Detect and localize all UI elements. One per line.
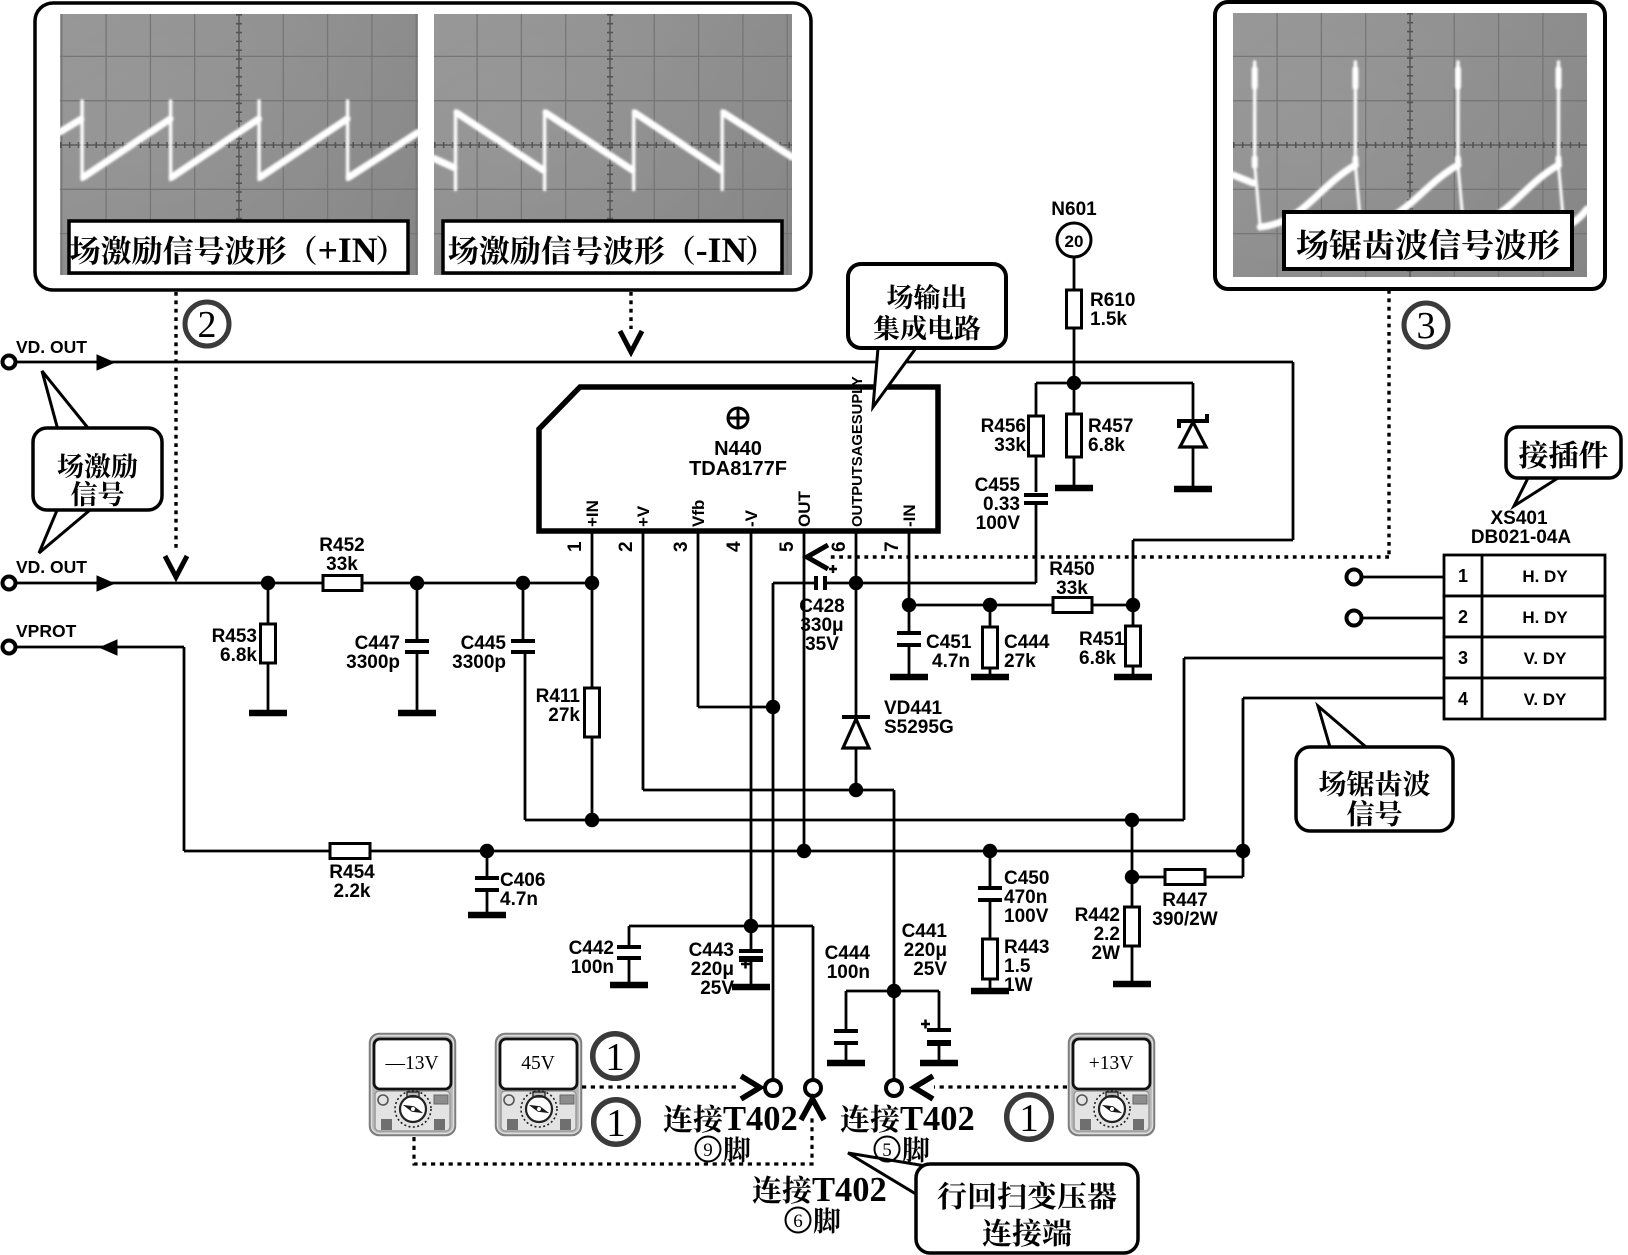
wire: R454 across to XS401 pin4 riser	[370, 850, 1243, 853]
wire: rail down to R442	[1131, 820, 1134, 907]
IC pin 1 (+IN) label	[583, 500, 602, 527]
arrowhead right at T402-9 terminal	[741, 1076, 760, 1099]
svg-text:470n: 470n	[1004, 887, 1047, 908]
svg-text:330μ: 330μ	[800, 615, 843, 636]
svg-text:R443: R443	[1004, 937, 1049, 958]
svg-text:3: 3	[671, 541, 692, 552]
terminal XS401 wire 2	[1347, 611, 1362, 626]
svg-text:VD. OUT: VD. OUT	[16, 557, 87, 577]
IC pin 6 (OUTPUTSAGESUPLY) label	[850, 376, 866, 527]
svg-text:R452: R452	[319, 535, 364, 556]
svg-text:33k: 33k	[326, 554, 358, 575]
wire: Vfb to feedback line	[698, 706, 773, 709]
svg-text:6.8k: 6.8k	[1079, 648, 1116, 669]
svg-text:T402: T402	[900, 1100, 975, 1138]
terminal VD.OUT (top)	[3, 356, 16, 369]
svg-text:OUT: OUT	[795, 491, 814, 528]
ground terminal under R457	[1055, 485, 1093, 492]
svg-text:25V: 25V	[700, 978, 734, 999]
svg-text:+IN: +IN	[318, 230, 378, 270]
wire: VD.OUT (top) to right side	[14, 361, 1293, 364]
resistor C444 (drawn as box, 27k)	[983, 627, 998, 668]
svg-text:V. DY: V. DY	[1524, 690, 1568, 709]
IC polarity mark	[728, 408, 748, 428]
capacitor C450	[978, 886, 1002, 890]
oscilloscope panel frame (top-right sawtooth photo)	[1215, 2, 1605, 289]
svg-text:H. DY: H. DY	[1522, 608, 1568, 627]
svg-text:100n: 100n	[827, 962, 870, 983]
wire: VD.OUT (lower) to R452	[14, 582, 323, 585]
svg-text:4: 4	[724, 541, 745, 552]
svg-text:R610: R610	[1090, 290, 1135, 311]
label 连接T402 ⑨脚	[664, 1105, 693, 1133]
svg-text:2W: 2W	[1092, 943, 1121, 964]
ground terminal under C451	[890, 674, 928, 681]
wire: node to R453	[267, 583, 270, 624]
capacitor C447	[405, 639, 429, 643]
svg-text:R411: R411	[536, 686, 581, 707]
capacitor C406	[475, 876, 499, 880]
svg-text:1: 1	[605, 1035, 625, 1078]
wire: down to -IN node	[1132, 540, 1135, 605]
wire: feedback rail to riser	[525, 819, 1184, 822]
svg-text:3300p: 3300p	[346, 652, 400, 673]
ground terminal under C442	[610, 982, 648, 989]
svg-text:1: 1	[565, 541, 586, 552]
svg-text:4.7n: 4.7n	[500, 889, 538, 910]
dotted leader from sawtooth photo down	[1387, 290, 1390, 557]
svg-text:33k: 33k	[1056, 578, 1088, 599]
oscilloscope panel frame (top-left waveform photos)	[35, 3, 811, 290]
svg-text:C406: C406	[500, 870, 545, 891]
svg-text:C447: C447	[355, 633, 400, 654]
svg-text:3: 3	[1458, 648, 1468, 668]
svg-text:C444: C444	[1004, 632, 1050, 653]
svg-text:33k: 33k	[994, 435, 1026, 456]
svg-text:100V: 100V	[976, 513, 1021, 534]
svg-text:6.8k: 6.8k	[1088, 435, 1125, 456]
resistor R454	[330, 844, 370, 859]
junction node R610	[1067, 376, 1081, 390]
wire: zener anode down	[1192, 447, 1195, 486]
svg-text:Vfb: Vfb	[689, 500, 708, 527]
circled marker 2	[185, 302, 229, 346]
junction node R442 rail	[1125, 813, 1139, 827]
wire: C444(27k) to ground	[989, 668, 992, 674]
svg-text:VD. OUT: VD. OUT	[16, 337, 87, 357]
wire: R447 riser up	[1242, 851, 1245, 877]
terminal VPROT	[3, 641, 16, 654]
junction node C450	[983, 844, 997, 858]
svg-text:C451: C451	[926, 632, 972, 653]
resistor R610	[1067, 290, 1082, 328]
capacitor C443 (electrolytic)	[739, 949, 763, 953]
svg-text:R450: R450	[1049, 559, 1094, 580]
IC pin 5 (OUT) label	[795, 491, 814, 528]
svg-text:T402: T402	[723, 1100, 798, 1138]
svg-text:R442: R442	[1075, 905, 1120, 926]
svg-text:4.7n: 4.7n	[932, 651, 970, 672]
wire: R453 to ground	[267, 663, 270, 710]
svg-text:R453: R453	[212, 626, 257, 647]
svg-text:5: 5	[882, 1140, 892, 1161]
diode VD441 S5295G	[842, 715, 870, 719]
svg-text:6: 6	[829, 541, 850, 552]
wire: down to C441	[938, 991, 941, 1030]
svg-text:27k: 27k	[548, 705, 580, 726]
callout 场激励信号	[42, 371, 88, 430]
svg-text:45V: 45V	[521, 1053, 555, 1074]
junction node C445	[516, 576, 530, 590]
ground terminal under R443	[971, 988, 1009, 995]
label box 场激励信号波形（+IN）	[69, 221, 408, 273]
svg-text:V. DY: V. DY	[1524, 649, 1568, 668]
resistor R443	[983, 939, 998, 979]
wire: +V rail	[643, 789, 894, 792]
svg-text:-IN: -IN	[696, 230, 748, 270]
ground terminal under R442	[1113, 981, 1151, 988]
svg-text:R457: R457	[1088, 416, 1133, 437]
wire: R457 down	[1073, 457, 1076, 485]
capacitor C455	[1024, 493, 1048, 497]
zener diode (unlabelled, right of R457)	[1179, 414, 1207, 428]
svg-text:DB021-04A: DB021-04A	[1471, 527, 1572, 548]
wire: pin7 -IN down to C451	[908, 531, 911, 633]
junction node C447	[410, 576, 424, 590]
circled marker 1 (a)	[593, 1034, 638, 1079]
wire: node to C444(27k)	[989, 605, 992, 627]
wire: horizontal toward R451 node	[1133, 539, 1293, 542]
svg-text:XS401: XS401	[1490, 508, 1547, 529]
svg-text:2: 2	[1458, 607, 1468, 627]
svg-text:390/2W: 390/2W	[1152, 909, 1218, 930]
wire: C445 bottom down	[524, 652, 527, 820]
wire: R451 to ground	[1132, 666, 1135, 674]
dotted probe line from -13V meter	[414, 1118, 812, 1164]
capacitor C428 (electrolytic, horizontal)	[814, 576, 818, 590]
dotted leader left to IC pin 6	[830, 555, 1389, 558]
svg-text:C455: C455	[975, 475, 1021, 496]
label box 场锯齿波信号波形	[1284, 212, 1572, 269]
svg-text:1.5: 1.5	[1004, 956, 1031, 977]
resistor R451	[1126, 626, 1141, 666]
svg-text:1: 1	[1019, 1096, 1039, 1139]
wire: R450 to R451 node	[1092, 604, 1133, 607]
wire: down to T402-6 terminal	[812, 926, 815, 1081]
svg-text:4: 4	[1458, 689, 1468, 709]
junction node C441 rail	[887, 984, 901, 998]
junction node C444-27k	[983, 598, 997, 612]
svg-text:T402: T402	[812, 1171, 887, 1209]
svg-text:-IN: -IN	[900, 504, 919, 527]
wire: C442 to ground	[628, 958, 631, 982]
svg-text:OUTPUTSAGESUPLY: OUTPUTSAGESUPLY	[850, 376, 866, 527]
ground terminal under zener	[1174, 486, 1212, 493]
svg-text:—13V: —13V	[384, 1053, 438, 1074]
svg-text:+V: +V	[634, 505, 653, 527]
wire: -V rail to C442	[628, 926, 631, 947]
svg-text:C443: C443	[689, 940, 734, 961]
svg-text:7: 7	[882, 541, 903, 552]
capacitor C444 (100n)	[834, 1029, 858, 1033]
arrowhead on VPROT wire (pointing left)	[100, 640, 117, 655]
svg-text:3: 3	[1417, 305, 1436, 347]
resistor R453	[261, 624, 276, 663]
resistor R447	[1165, 870, 1205, 885]
ground terminal under C443	[732, 984, 770, 991]
wire: +V down to C441 node	[893, 790, 896, 991]
dotted leader from +IN photo down to VD.OUT wire	[174, 292, 177, 550]
resistor R442	[1125, 907, 1140, 946]
wire: C428 left lead horizontal	[773, 582, 816, 585]
wire: up to C455	[1035, 505, 1038, 583]
capacitor C445	[511, 639, 535, 643]
svg-text:1: 1	[606, 1101, 626, 1144]
capacitor C441 (electrolytic)	[927, 1028, 951, 1032]
callout 行回扫变压器连接端	[848, 1153, 938, 1194]
callout 接插件	[1514, 478, 1558, 506]
wire: pin6 down to VD441	[855, 531, 858, 716]
svg-text:220μ: 220μ	[904, 940, 947, 961]
junction node C428/pin6	[849, 576, 863, 590]
label 连接T402 ⑤脚	[841, 1105, 870, 1133]
wire: down to zener diode	[1192, 383, 1195, 420]
callout 场锯齿波信号	[1318, 706, 1366, 747]
meter icon +13V	[1069, 1034, 1154, 1135]
svg-text:6: 6	[793, 1211, 803, 1232]
wire: -IN node to R450	[909, 604, 1053, 607]
terminal to T402 pin 5	[886, 1080, 902, 1096]
wire: terminal to XS401 pin 2	[1362, 617, 1444, 620]
svg-text:R456: R456	[981, 416, 1026, 437]
label 连接T402 ⑥脚	[753, 1176, 782, 1204]
wire: R411 to feedback rail	[591, 737, 594, 820]
arrowhead up at T402-6 terminal	[801, 1099, 824, 1120]
wire: down to T402-5 terminal	[893, 991, 896, 1081]
svg-text:C428: C428	[799, 596, 844, 617]
resistor R411	[585, 688, 600, 737]
svg-text:R447: R447	[1162, 890, 1207, 911]
svg-text:220μ: 220μ	[691, 959, 734, 980]
wire: C406 to ground	[486, 890, 489, 912]
callout 场输出集成电路	[873, 348, 916, 407]
svg-text:2: 2	[198, 304, 217, 346]
IC pin 7 (-IN) label	[900, 504, 919, 527]
wire: terminal to XS401 pin 1	[1362, 576, 1444, 579]
wire: C444/C441 rail	[846, 990, 939, 993]
wire: VPROT to R454	[184, 850, 330, 853]
wire: pin5 OUT down to output rail	[803, 531, 806, 851]
oscilloscope photo: -IN drive waveform	[434, 14, 792, 275]
wire: C443 to ground	[750, 958, 753, 984]
wire: C447 to ground	[416, 652, 419, 710]
wire: VPROT	[14, 646, 184, 649]
svg-text:0.33: 0.33	[983, 494, 1020, 515]
wire: node to C447	[416, 583, 419, 641]
junction node R447 left	[1125, 870, 1139, 884]
resistor R457	[1067, 414, 1082, 457]
svg-text:C445: C445	[461, 633, 507, 654]
svg-text:+IN: +IN	[583, 500, 602, 527]
resistor R452	[323, 576, 362, 591]
ground terminal under C444-100n	[827, 1060, 865, 1067]
svg-text:20: 20	[1065, 232, 1084, 251]
IC pin 2 (+V) label	[634, 505, 653, 527]
wire: VD441 anode to +V rail	[855, 747, 858, 790]
wire: node to C443	[750, 926, 753, 951]
svg-text:H. DY: H. DY	[1522, 567, 1568, 586]
svg-text:N601: N601	[1051, 199, 1097, 220]
junction node R447 riser	[1236, 844, 1250, 858]
wire: R443 to ground	[989, 979, 992, 988]
circled marker 3	[1404, 303, 1448, 347]
wire: C441 to ground	[938, 1043, 941, 1060]
svg-text:25V: 25V	[913, 959, 947, 980]
junction node VD441/+V rail	[849, 783, 863, 797]
svg-text:100n: 100n	[571, 957, 614, 978]
wire: pin1 node down to R411	[591, 583, 594, 688]
wire: node to C445	[522, 583, 525, 641]
ground terminal under C406	[468, 912, 506, 919]
resistor R456	[1029, 416, 1044, 456]
wire: down to R456	[1035, 383, 1038, 416]
junction node C406	[480, 844, 494, 858]
ground terminal under C444-27k	[971, 674, 1009, 681]
svg-text:R454: R454	[329, 862, 375, 883]
wire: rail to C450	[989, 851, 992, 888]
svg-text:6.8k: 6.8k	[220, 645, 257, 666]
svg-text:+13V: +13V	[1089, 1053, 1134, 1074]
wire: R610 down across top wire to node	[1073, 328, 1076, 414]
wire: pin2 +V down	[642, 531, 645, 790]
wire: down to C444 100n	[845, 991, 848, 1031]
wire: to XS401 pin 3	[1184, 657, 1444, 660]
wire: C451 to ground	[908, 645, 911, 674]
junction node R453	[261, 576, 275, 590]
oscilloscope photo: vertical sawtooth waveform	[1233, 13, 1587, 277]
svg-text:C441: C441	[902, 921, 948, 942]
svg-text:3300p: 3300p	[452, 652, 506, 673]
svg-text:-V: -V	[742, 509, 761, 527]
svg-text:2.2: 2.2	[1094, 924, 1120, 945]
wire: R456 to C455	[1035, 456, 1038, 492]
wire: pin1 to VD.OUT node	[591, 531, 594, 583]
arrowhead left at T402-5 terminal	[914, 1076, 933, 1099]
IC N440 TDA8177F body	[539, 387, 938, 531]
IC pin 4 (-V) label	[742, 509, 761, 527]
svg-text:VD441: VD441	[884, 698, 943, 719]
connector XS401 DB021-04A	[1444, 555, 1605, 596]
wire: N601 pin20 to R610	[1073, 257, 1076, 290]
svg-text:1: 1	[1458, 566, 1468, 586]
junction node R411/rail	[585, 813, 599, 827]
svg-text:1.5k: 1.5k	[1090, 309, 1127, 330]
terminal XS401 wire 1	[1347, 570, 1362, 585]
ground terminal under C441	[920, 1060, 958, 1067]
circled marker 1 (b)	[594, 1100, 639, 1145]
wire: riser up to V.DY pin3	[1183, 658, 1186, 820]
circled marker 1 (c)	[1007, 1095, 1052, 1140]
wire: C428 plus lead to C455	[825, 582, 1036, 585]
wire: C444 to ground	[845, 1043, 848, 1060]
junction node Vfb	[766, 700, 780, 714]
wire: R447 to riser	[1205, 876, 1243, 879]
arrowhead down on +IN leader	[165, 556, 187, 577]
svg-text:VPROT: VPROT	[16, 621, 77, 641]
wire: node to R451	[1132, 605, 1135, 626]
svg-text:C444: C444	[825, 943, 871, 964]
wire: riser up to V.DY pin4	[1242, 698, 1245, 851]
wire: to XS401 pin 4	[1243, 697, 1444, 700]
svg-text:C450: C450	[1004, 868, 1049, 889]
wire: C450 to R443	[989, 900, 992, 939]
dotted probe line from 45V meter	[582, 1085, 740, 1088]
junction node OUT rail	[797, 844, 811, 858]
ground terminal under C447	[398, 710, 436, 717]
arrowhead left at pin 6	[807, 545, 828, 569]
ground terminal under R453	[249, 710, 287, 717]
wire: pin4 -V down	[750, 531, 753, 926]
capacitor C451	[897, 631, 921, 635]
svg-text:35V: 35V	[805, 634, 839, 655]
junction node -V rail	[744, 919, 758, 933]
svg-text:27k: 27k	[1004, 651, 1036, 672]
svg-text:C442: C442	[569, 938, 614, 959]
meter icon -13V	[370, 1034, 455, 1135]
wire: pin3 Vfb down	[697, 531, 700, 707]
svg-text:9: 9	[703, 1140, 713, 1161]
svg-text:TDA8177F: TDA8177F	[689, 458, 787, 480]
svg-text:R451: R451	[1079, 629, 1125, 650]
svg-text:N440: N440	[714, 438, 762, 460]
resistor R450	[1053, 598, 1092, 613]
wire: R442 to ground	[1131, 946, 1134, 981]
arrowhead on lower VD.OUT wire	[97, 576, 114, 591]
meter icon 45V	[496, 1034, 581, 1135]
wire: right vertical drop	[1292, 362, 1295, 540]
svg-text:S5295G: S5295G	[884, 717, 954, 738]
terminal to T402 pin 6	[805, 1080, 821, 1096]
wire: output rail to C406	[486, 851, 489, 878]
junction node pin1	[585, 576, 599, 590]
capacitor C442	[617, 945, 641, 949]
junction node -IN	[902, 598, 916, 612]
wire: R452 to IC pin 1	[362, 582, 592, 585]
svg-text:2: 2	[616, 541, 637, 552]
arrowhead down on -IN leader	[620, 331, 642, 352]
IC pin 3 (Vfb) label	[689, 500, 708, 527]
oscilloscope photo: +IN drive waveform	[60, 14, 418, 275]
dotted probe line from +13V meter	[934, 1085, 1067, 1088]
terminal VD.OUT (lower)	[3, 577, 16, 590]
svg-text:100V: 100V	[1004, 906, 1049, 927]
wire: R456 node rail	[1036, 382, 1193, 385]
wire: VPROT down	[183, 647, 186, 851]
wire: node to R447	[1132, 876, 1165, 879]
label box 场激励信号波形（-IN）	[443, 221, 782, 273]
svg-text:2.2k: 2.2k	[334, 881, 371, 902]
ground terminal under R451	[1114, 674, 1152, 681]
wire: C428 left lead down to T402-9 terminal	[772, 583, 775, 1081]
dotted leader from -IN photo down to top VD.OUT wire	[629, 292, 632, 329]
terminal to T402 pin 9	[765, 1080, 781, 1096]
junction node R451	[1126, 598, 1140, 612]
wire: -V rail to C442/C443	[629, 925, 813, 928]
arrowhead on top VD.OUT wire	[97, 355, 114, 370]
svg-text:5: 5	[777, 541, 798, 552]
